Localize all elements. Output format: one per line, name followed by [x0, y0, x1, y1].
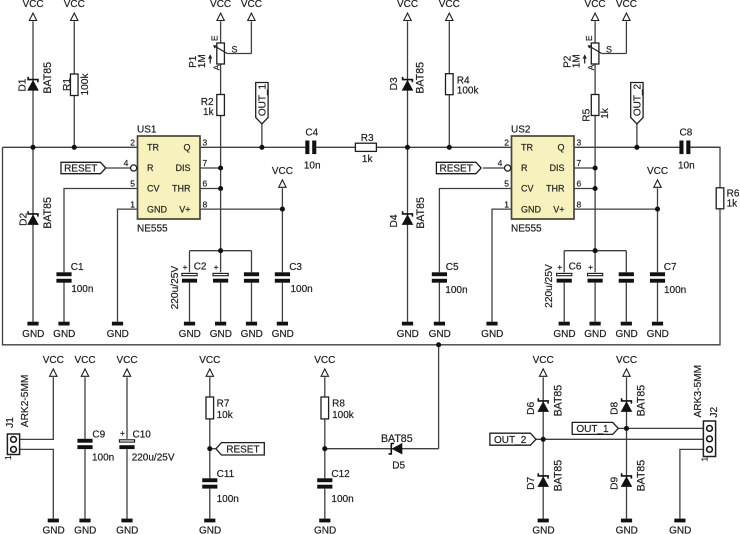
svg-text:OUT_2: OUT_2 — [494, 435, 527, 446]
svg-text:5: 5 — [130, 179, 135, 189]
svg-text:DIS: DIS — [175, 163, 190, 173]
svg-text:220u/25V: 220u/25V — [170, 266, 181, 310]
svg-text:10n: 10n — [678, 160, 695, 171]
svg-text:S: S — [232, 44, 238, 54]
svg-text:S: S — [606, 44, 612, 54]
svg-text:GND: GND — [199, 525, 221, 534]
svg-text:100k: 100k — [80, 73, 91, 96]
svg-text:US1: US1 — [137, 125, 157, 136]
svg-text:+: + — [120, 428, 125, 438]
svg-text:C5: C5 — [446, 262, 459, 273]
svg-text:100n: 100n — [331, 494, 353, 505]
svg-text:GND: GND — [53, 329, 75, 340]
svg-text:R5: R5 — [581, 108, 592, 121]
svg-text:1k: 1k — [362, 154, 374, 165]
svg-text:GND: GND — [532, 525, 554, 534]
svg-text:GND: GND — [584, 329, 606, 340]
svg-text:3: 3 — [577, 138, 582, 148]
svg-text:GND: GND — [616, 525, 638, 534]
svg-text:R: R — [147, 163, 154, 173]
svg-text:TR: TR — [521, 143, 533, 153]
svg-text:1M: 1M — [572, 54, 583, 68]
svg-text:CV: CV — [521, 184, 534, 194]
svg-text:4: 4 — [498, 158, 503, 168]
svg-text:J2: J2 — [709, 406, 720, 417]
svg-text:US2: US2 — [511, 125, 531, 136]
svg-text:GND: GND — [116, 525, 138, 534]
svg-text:2: 2 — [130, 138, 135, 148]
svg-text:VCC: VCC — [64, 0, 85, 10]
svg-text:100n: 100n — [664, 285, 686, 296]
svg-text:BAT85: BAT85 — [552, 460, 564, 492]
svg-text:GND: GND — [210, 329, 232, 340]
svg-text:VCC: VCC — [241, 0, 262, 10]
svg-text:5: 5 — [504, 179, 509, 189]
svg-text:E: E — [210, 35, 220, 41]
svg-text:1: 1 — [700, 456, 709, 461]
svg-text:THR: THR — [546, 184, 565, 194]
svg-text:100k: 100k — [332, 410, 355, 421]
svg-text:3: 3 — [203, 138, 208, 148]
svg-text:1: 1 — [504, 199, 509, 209]
svg-text:ARK3-5MM: ARK3-5MM — [693, 365, 704, 418]
svg-text:6: 6 — [577, 179, 582, 189]
svg-text:100k: 100k — [457, 86, 480, 97]
svg-text:+: + — [183, 262, 188, 272]
svg-text:D6: D6 — [526, 402, 537, 415]
svg-text:VCC: VCC — [22, 0, 43, 10]
svg-text:100n: 100n — [217, 494, 239, 505]
svg-text:C10: C10 — [133, 429, 152, 440]
svg-text:R7: R7 — [217, 399, 230, 410]
svg-text:RESET: RESET — [226, 444, 259, 455]
svg-text:GND: GND — [481, 329, 503, 340]
svg-text:VCC: VCC — [116, 355, 137, 366]
svg-text:220u/25V: 220u/25V — [544, 264, 555, 308]
svg-text:C3: C3 — [289, 262, 302, 273]
svg-text:VCC: VCC — [74, 355, 95, 366]
svg-text:GND: GND — [615, 329, 637, 340]
svg-text:OUT_2: OUT_2 — [632, 83, 643, 116]
svg-text:100n: 100n — [71, 284, 93, 295]
svg-text:1: 1 — [4, 455, 13, 460]
svg-text:8: 8 — [577, 199, 582, 209]
svg-text:2: 2 — [504, 138, 509, 148]
svg-text:7: 7 — [203, 158, 208, 168]
svg-text:VCC: VCC — [199, 355, 220, 366]
svg-text:BAT85: BAT85 — [42, 197, 54, 229]
svg-text:1: 1 — [130, 199, 135, 209]
svg-text:GND: GND — [521, 204, 542, 214]
svg-text:VCC: VCC — [43, 355, 64, 366]
svg-text:A: A — [586, 64, 596, 70]
svg-text:GND: GND — [314, 525, 336, 534]
svg-text:R: R — [521, 163, 528, 173]
svg-text:1k: 1k — [203, 107, 215, 118]
svg-text:6: 6 — [203, 179, 208, 189]
svg-text:GND: GND — [147, 204, 168, 214]
svg-text:D1: D1 — [18, 78, 29, 91]
svg-text:D7: D7 — [526, 477, 537, 490]
svg-text:GND: GND — [429, 329, 451, 340]
svg-text:GND: GND — [107, 329, 129, 340]
svg-text:100n: 100n — [445, 285, 467, 296]
svg-text:BAT85: BAT85 — [415, 62, 427, 94]
svg-text:BAT85: BAT85 — [42, 62, 54, 94]
svg-text:RESET: RESET — [439, 164, 472, 175]
svg-text:1k: 1k — [727, 198, 739, 209]
svg-text:BAT85: BAT85 — [636, 385, 648, 417]
svg-text:4: 4 — [124, 158, 129, 168]
svg-text:VCC: VCC — [616, 0, 637, 10]
svg-text:GND: GND — [42, 525, 64, 534]
svg-text:1k: 1k — [600, 107, 611, 119]
svg-text:GND: GND — [553, 329, 575, 340]
svg-text:VCC: VCC — [647, 166, 668, 177]
svg-text:+: + — [557, 262, 562, 272]
svg-text:A: A — [211, 64, 221, 70]
svg-text:10k: 10k — [217, 410, 234, 421]
svg-text:THR: THR — [172, 184, 191, 194]
svg-text:D5: D5 — [392, 461, 405, 472]
svg-text:R1: R1 — [62, 78, 73, 91]
svg-text:CV: CV — [147, 184, 160, 194]
svg-text:V+: V+ — [179, 204, 190, 214]
svg-text:ARK2-5MM: ARK2-5MM — [20, 375, 31, 428]
svg-text:D3: D3 — [389, 77, 400, 90]
svg-text:100n: 100n — [92, 453, 114, 464]
svg-text:Q: Q — [183, 143, 190, 153]
svg-text:GND: GND — [669, 525, 691, 534]
svg-text:D9: D9 — [609, 477, 620, 490]
svg-text:NE555: NE555 — [511, 223, 542, 234]
svg-text:C1: C1 — [71, 262, 84, 273]
svg-text:VCC: VCC — [210, 0, 231, 10]
svg-text:D2: D2 — [19, 213, 30, 226]
svg-text:RESET: RESET — [64, 164, 97, 175]
svg-text:VCC: VCC — [272, 166, 293, 177]
svg-text:C6: C6 — [569, 262, 582, 273]
svg-text:D4: D4 — [389, 214, 400, 227]
svg-text:GND: GND — [22, 329, 44, 340]
svg-text:V+: V+ — [553, 204, 564, 214]
svg-text:R3: R3 — [361, 133, 374, 144]
svg-text:GND: GND — [179, 329, 201, 340]
svg-text:100n: 100n — [291, 284, 313, 295]
svg-text:C9: C9 — [92, 429, 105, 440]
svg-text:GND: GND — [647, 329, 669, 340]
svg-text:220u/25V: 220u/25V — [132, 453, 175, 464]
svg-text:R8: R8 — [332, 399, 345, 410]
svg-text:C4: C4 — [305, 127, 318, 138]
svg-text:C8: C8 — [680, 127, 693, 138]
svg-text:8: 8 — [203, 199, 208, 209]
svg-text:Q: Q — [557, 143, 564, 153]
svg-text:C11: C11 — [217, 469, 235, 480]
svg-text:OUT_1: OUT_1 — [576, 424, 609, 435]
svg-text:VCC: VCC — [616, 355, 637, 366]
svg-text:BAT85: BAT85 — [636, 460, 648, 492]
svg-text:C12: C12 — [331, 469, 350, 480]
svg-text:TR: TR — [147, 143, 159, 153]
svg-text:BAT85: BAT85 — [415, 197, 427, 229]
svg-text:C2: C2 — [194, 262, 207, 273]
svg-text:VCC: VCC — [439, 0, 460, 10]
svg-text:BAT85: BAT85 — [552, 385, 564, 417]
svg-text:VCC: VCC — [585, 0, 606, 10]
svg-text:+: + — [214, 262, 219, 272]
svg-text:NE555: NE555 — [137, 223, 168, 234]
svg-text:BAT85: BAT85 — [381, 433, 413, 445]
svg-text:+: + — [588, 262, 593, 272]
svg-text:OUT_1: OUT_1 — [257, 83, 268, 116]
svg-text:C7: C7 — [664, 262, 677, 273]
svg-text:VCC: VCC — [397, 0, 418, 10]
svg-text:VCC: VCC — [314, 355, 335, 366]
svg-text:DIS: DIS — [549, 163, 564, 173]
svg-text:D8: D8 — [609, 402, 620, 415]
svg-text:GND: GND — [74, 525, 96, 534]
svg-text:7: 7 — [577, 158, 582, 168]
svg-text:GND: GND — [397, 329, 419, 340]
svg-text:VCC: VCC — [533, 355, 554, 366]
svg-text:GND: GND — [241, 329, 263, 340]
svg-text:J1: J1 — [5, 417, 16, 428]
svg-text:1M: 1M — [197, 54, 208, 68]
svg-text:GND: GND — [272, 329, 294, 340]
svg-text:E: E — [584, 35, 594, 41]
svg-text:10n: 10n — [304, 160, 321, 171]
